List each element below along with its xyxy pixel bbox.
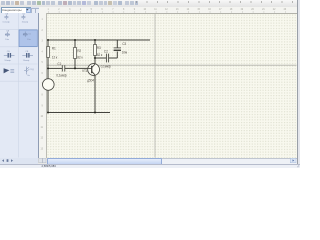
wire: node A down to microphone (47, 68, 49, 78)
svg-text:СВ: СВ (7, 51, 11, 53)
wire: top supply rail (48, 39, 150, 41)
svg-text:10м: 10м (122, 50, 127, 54)
wire: bottom ground rail (48, 112, 110, 114)
wire: collector node to C2 (95, 57, 106, 59)
svg-text:17: 17 (219, 9, 222, 11)
svg-text:Конденсаторы: Конденсаторы (2, 8, 21, 12)
svg-text:VT1: VT1 (82, 69, 88, 73)
svg-text:5: 5 (91, 9, 93, 11)
horizontal ruler numbers (48, 9, 287, 11)
palette cap 6 symbol (22, 54, 33, 56)
svg-text:82 к: 82 к (97, 53, 103, 57)
wire: microphone to bottom rail (47, 90, 49, 112)
resistor R3 (94, 45, 97, 56)
svg-text:1: 1 (42, 19, 44, 21)
svg-text:д504: д504 (87, 79, 94, 83)
capacitor C1 plates (62, 65, 65, 71)
svg-text:11: 11 (154, 9, 157, 11)
svg-text:7: 7 (112, 9, 114, 11)
scrollbar right arrow (290, 158, 296, 163)
svg-text:R2: R2 (77, 49, 81, 53)
palette cap 4 symbol (selected electrolytic) (23, 32, 27, 37)
svg-text:4: 4 (80, 9, 82, 11)
resistor R2 (74, 48, 77, 59)
svg-text:82 к: 82 к (77, 55, 83, 59)
vertical ruler numbers (41, 19, 44, 150)
resize grip (297, 165, 299, 167)
svg-text:10м: 10м (5, 39, 9, 41)
svg-text:0,1мкф: 0,1мкф (56, 74, 67, 78)
svg-text:C1: C1 (57, 62, 61, 66)
palette tiny labels (3, 13, 35, 77)
svg-text:10мкф: 10мкф (22, 21, 29, 24)
svg-text:С0: С0 (22, 13, 26, 15)
microphone BM1 circle (43, 79, 55, 91)
svg-text:3: 3 (69, 9, 71, 11)
palette cap 3 symbol (5, 32, 9, 37)
svg-text:12: 12 (165, 9, 168, 11)
wire: C3 top lead from supply rail (116, 40, 118, 48)
svg-text:10: 10 (144, 9, 147, 11)
svg-text:10м: 10м (27, 39, 31, 41)
svg-text:R1: R1 (52, 47, 56, 51)
transistor VT1 (88, 64, 100, 76)
palette cap 1 symbol (4, 15, 8, 20)
svg-text:10мкф: 10мкф (4, 59, 11, 62)
svg-text:2: 2 (58, 9, 60, 11)
svg-text:21: 21 (262, 9, 265, 11)
svg-text:8: 8 (123, 9, 125, 11)
wire: R2 bottom lead (74, 59, 76, 69)
wire: node A to C1 (48, 67, 62, 69)
svg-text:23: 23 (284, 9, 287, 11)
wire: R3 bottom to collector (94, 56, 96, 65)
combobox arrow (26, 9, 28, 11)
svg-text:9: 9 (134, 9, 136, 11)
svg-text:СВ: СВ (25, 51, 29, 53)
svg-text:0,1мкф: 0,1мкф (101, 64, 112, 68)
svg-text:R3: R3 (97, 46, 101, 50)
svg-text:6: 6 (42, 73, 44, 75)
svg-text:14: 14 (187, 9, 190, 11)
svg-text:10мкф: 10мкф (23, 59, 30, 62)
svg-text:4: 4 (42, 51, 44, 53)
component labels (52, 42, 127, 83)
h ruler ticks (48, 11, 285, 13)
svg-text:10: 10 (41, 116, 44, 118)
svg-text:12 к: 12 к (52, 56, 58, 60)
svg-text:11: 11 (41, 127, 44, 129)
svg-text:1: 1 (48, 9, 50, 11)
capacitor C2 plates (106, 54, 108, 63)
svg-text:16: 16 (208, 9, 211, 11)
wire: emitter down to ground rail (94, 75, 96, 113)
wire: C3 bottom lead (116, 52, 118, 59)
palette scroll arrows (2, 159, 13, 162)
wire: R3 top lead (94, 40, 96, 45)
svg-text:СВ: СВ (6, 30, 10, 32)
svg-text:6: 6 (101, 9, 103, 11)
svg-text:20: 20 (251, 9, 254, 11)
svg-text:2: 2 (42, 30, 44, 32)
svg-text:2м: 2м (27, 75, 30, 77)
palette symbol 7 (dark wedge) (4, 68, 10, 73)
svg-text:19: 19 (241, 9, 244, 11)
wire: R1 bottom to node A (47, 58, 49, 69)
svg-text:5: 5 (42, 62, 44, 64)
selected cell highlight (19, 30, 37, 47)
svg-text:13: 13 (176, 9, 179, 11)
palette cap 5 symbol (4, 54, 15, 56)
svg-text:18: 18 (230, 9, 233, 11)
wire: R2 top lead (74, 40, 76, 48)
svg-text:С1Д: С1Д (30, 69, 35, 71)
junction node dots (47, 39, 96, 114)
wire: C1 to base of VT1 (65, 67, 92, 69)
page boundary horizontal line (47, 64, 297, 66)
svg-text:СВ: СВ (5, 13, 9, 15)
svg-text:22: 22 (273, 9, 276, 11)
capacitor C3 plates (electrolytic) (114, 47, 121, 49)
svg-text:12: 12 (41, 138, 44, 140)
svg-text:15: 15 (197, 9, 200, 11)
wire: C2 to C3 node (109, 57, 118, 59)
svg-text:0,1мкф: 0,1мкф (3, 21, 10, 24)
svg-text:8: 8 (42, 95, 44, 97)
svg-text:13: 13 (41, 148, 44, 150)
wire: left vertical (top rail to R1) (47, 40, 49, 47)
svg-text:C3: C3 (122, 42, 126, 46)
resistor R1 (47, 47, 50, 58)
svg-text:3: 3 (42, 41, 44, 43)
svg-text:9: 9 (42, 105, 44, 107)
page boundary vertical line (154, 14, 156, 158)
palette symbol 8 (diode/zener) (24, 67, 29, 75)
scrollbar corner buttons (39, 158, 42, 163)
svg-text:C2: C2 (104, 49, 108, 53)
svg-text:2,583/5,083: 2,583/5,083 (42, 164, 57, 168)
palette cap 2 symbol (21, 15, 25, 20)
palette grid borders (0, 13, 38, 158)
